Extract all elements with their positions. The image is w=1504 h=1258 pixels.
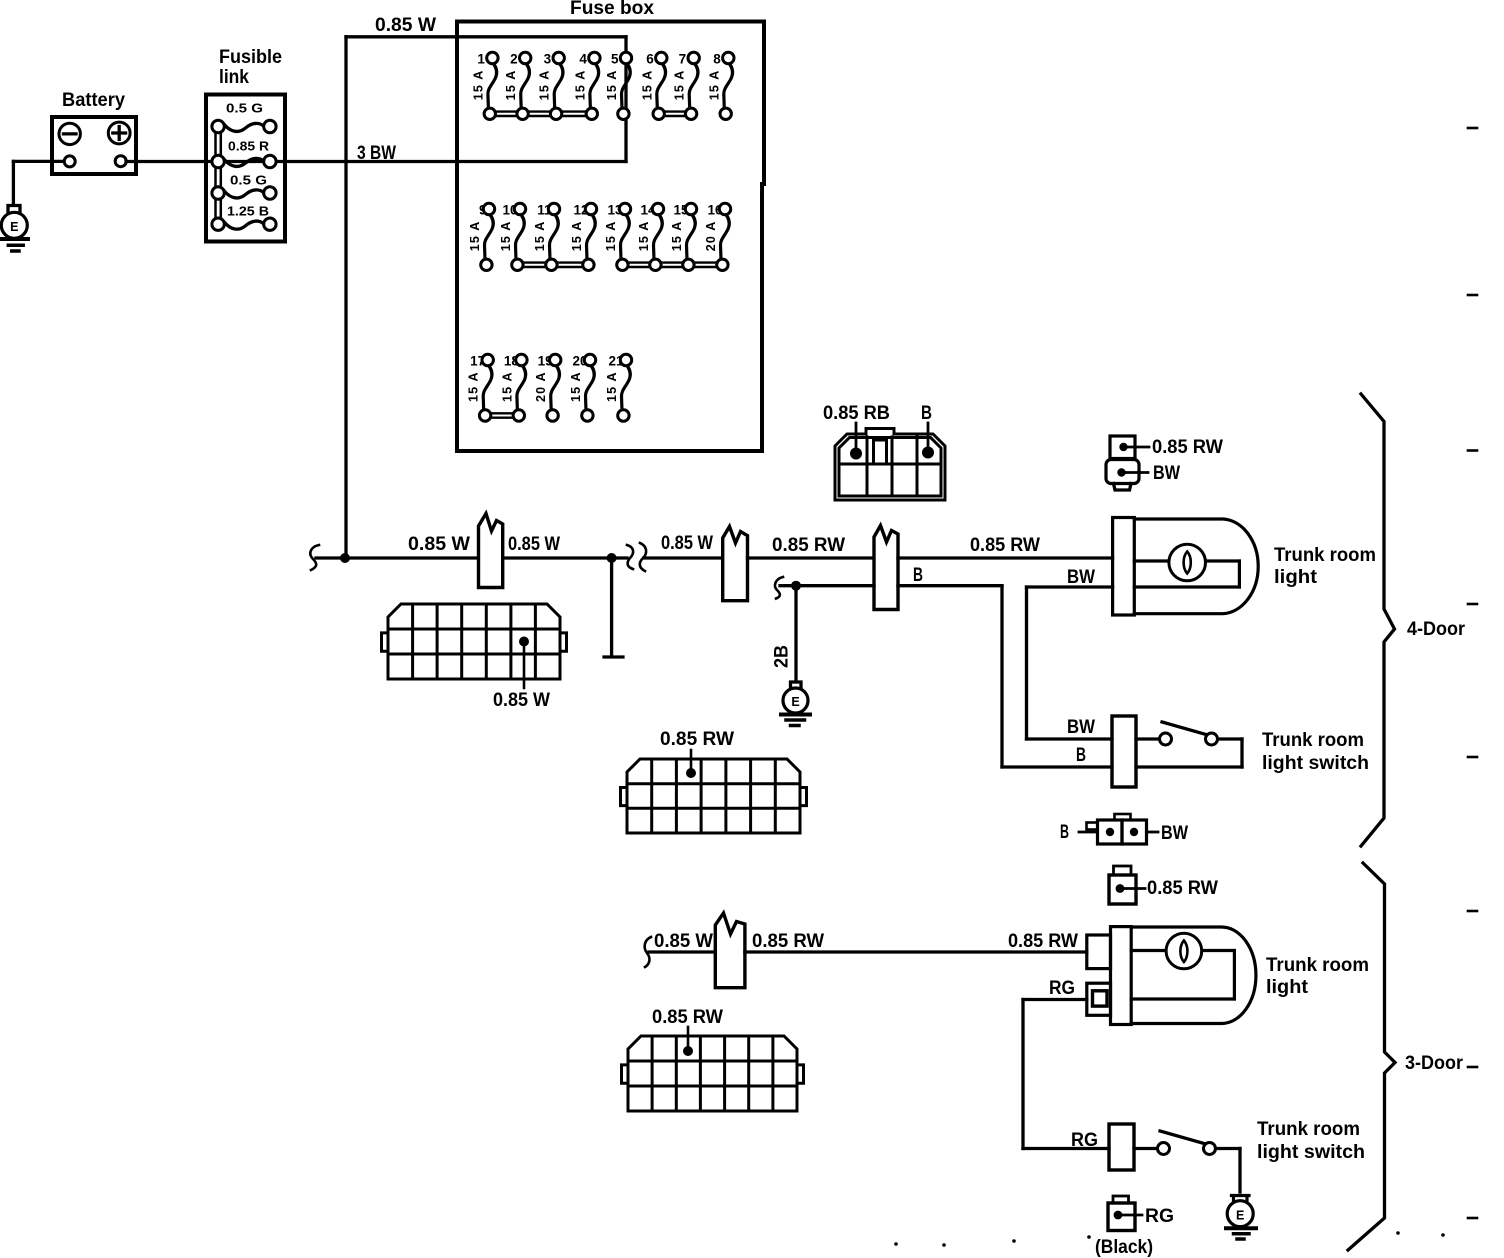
svg-text:0.85 RW: 0.85 RW [652,1007,723,1028]
svg-text:BW: BW [1067,567,1095,588]
pin mark 0.85 W (GC1) [519,637,529,647]
connector 0.85 RW (3-door, top) [1109,866,1145,904]
svg-text:20 A: 20 A [534,371,548,402]
fuse 19 20 A [534,354,561,422]
fuse box outline [457,22,764,452]
fuse 9 15 A [468,203,495,271]
svg-text:0.5 G: 0.5 G [226,102,263,116]
svg-text:0.85 RW: 0.85 RW [970,535,1040,556]
fusible link [206,47,285,242]
wire main run segment 2 [503,556,627,559]
svg-text:RG: RG [1145,1206,1174,1227]
page tick marks [1468,128,1477,1218]
brace 4-Door [1361,394,1395,846]
fuse 3 15 A [538,52,565,120]
bulb (3-door trunk light) [1166,933,1202,969]
wire fuse box loop top [346,35,626,38]
fuse 17 15 A [467,354,494,422]
svg-text:1: 1 [477,52,485,67]
trunk room light switch (4-door) [1112,716,1242,787]
connector C3 (double, 0.85RW / B) [874,526,898,610]
wire battery negative to ground [13,160,64,163]
junction node B / ground branch [791,581,801,591]
fusible link element 0.5 G [212,174,276,200]
fuse 13 15 A [604,203,631,271]
wire main run segment 3 [644,556,723,559]
svg-text:(Black): (Black) [1095,1237,1153,1258]
svg-text:Fusible: Fusible [219,47,282,68]
fuse 1 15 A [471,52,498,120]
svg-text:Trunk room: Trunk room [1257,1119,1360,1140]
svg-text:light: light [1274,567,1318,588]
fuse 4 15 A [573,52,600,120]
fuse 6 15 A [640,52,667,120]
svg-text:4-Door: 4-Door [1407,619,1466,640]
wire main run segment 1 [316,556,478,559]
ground E (battery) [1,206,28,252]
wire BW trunk light to switch [1027,585,1113,588]
fuse 7 15 A [673,52,700,120]
trunk room light switch (3-door) [1109,1124,1240,1192]
svg-text:RG: RG [1071,1130,1098,1151]
bulb (4-door trunk light) [1169,544,1206,581]
wire 2B to ground [794,586,797,682]
wire break symbol (3-door run) [645,937,651,967]
svg-text:light: light [1266,977,1309,998]
brace 3-Door [1348,863,1395,1250]
svg-text:15 A: 15 A [640,70,654,101]
svg-text:15 A: 15 A [499,221,513,252]
svg-text:BW: BW [1153,463,1180,484]
svg-text:6: 6 [646,52,654,67]
svg-text:0.85 RW: 0.85 RW [752,931,824,952]
fuse 5 15 A [605,52,632,120]
svg-text:0.85 RW: 0.85 RW [1152,437,1223,458]
svg-text:2B: 2B [772,645,793,668]
svg-text:BW: BW [1067,717,1095,738]
fuse 20 15 A [569,354,596,422]
svg-text:4: 4 [579,52,587,67]
multi-pin connector block floor wire No.1 [621,759,807,833]
wire B to trunk switch [1002,765,1112,768]
svg-text:15 A: 15 A [673,70,687,101]
ground E (3-door switch) [1226,1196,1256,1240]
svg-text:BW: BW [1161,823,1188,844]
svg-text:15 A: 15 A [468,221,482,252]
wire vertical 0.85 W down to main run [344,37,347,558]
svg-text:0.85 RW: 0.85 RW [1008,931,1078,952]
svg-text:3 BW: 3 BW [357,143,396,164]
svg-text:15 A: 15 A [533,221,547,252]
svg-text:0.85 RW: 0.85 RW [660,729,734,750]
trunk room light (3-door) [1087,927,1256,1025]
svg-text:1.25 B: 1.25 B [227,205,269,219]
svg-text:Trunk room: Trunk room [1274,545,1376,566]
junction node main run / 0.85W vertical [340,553,350,563]
connector C2 (0.85W / 0.85RW) [723,527,748,601]
fuse bus bar [517,261,588,263]
svg-text:15 A: 15 A [573,70,587,101]
svg-text:15 A: 15 A [538,70,552,101]
pin 0.85 RB [850,448,862,460]
fuse 15 15 A [670,203,697,271]
svg-text:15 A: 15 A [707,70,721,101]
svg-text:15 A: 15 A [569,371,583,402]
svg-text:light switch: light switch [1257,1142,1365,1163]
wire fuse box loop right edge [624,37,627,162]
svg-text:15 A: 15 A [570,221,584,252]
page dots [894,1231,1445,1247]
wire break symbol (left of main run) [310,545,319,570]
fuse bus bar [485,412,519,414]
connector pair B / BW (4-door switch) [1079,814,1158,844]
svg-text:E: E [791,695,799,709]
trunk room light (4-door) [1113,518,1259,616]
svg-text:15 A: 15 A [604,221,618,252]
junction connector 0.85 RB / B [835,429,945,501]
svg-text:5: 5 [611,52,619,67]
connector C4 (0.85W / 0.85RW, 3-door) [715,913,745,988]
multi-pin connector block floor wire No.2 [622,1036,804,1111]
wire stub to open end [610,558,613,655]
svg-text:3-Door: 3-Door [1405,1053,1464,1074]
svg-text:15 A: 15 A [637,221,651,252]
pin mark 0.85 RW (GC2) [686,768,696,778]
svg-text:15 A: 15 A [500,371,514,402]
connector BW (4-door light) [1106,460,1148,491]
svg-text:E: E [10,220,18,234]
svg-text:0.85 W: 0.85 W [508,534,560,555]
svg-text:15 A: 15 A [605,70,619,101]
svg-text:0.85 W: 0.85 W [493,690,550,711]
svg-text:Trunk room: Trunk room [1266,955,1369,976]
fuse 2 15 A [504,52,531,120]
fuse bus bar [659,110,691,112]
fusible link element 1.25 B [212,205,276,231]
svg-text:7: 7 [679,52,687,67]
svg-text:0.85 W: 0.85 W [408,534,470,555]
inline connector break symbols [627,545,633,569]
fuse 10 15 A [499,203,526,271]
battery [52,90,136,174]
wire main run segment 4 [748,556,875,559]
fuse 21 15 A [605,354,632,422]
connector 0.85 RW (4-door light) [1110,436,1149,459]
svg-text:0.85 RW: 0.85 RW [772,535,845,556]
svg-text:B: B [921,403,932,424]
wire B from C3 to corner [898,584,1002,587]
svg-text:link: link [219,67,249,88]
wire RG light to switch [1023,998,1087,1001]
multi-pin connector block instrument panel wire [382,604,567,679]
svg-text:15 A: 15 A [471,70,485,101]
fuse bus bar [490,110,592,112]
wire main run segment 5 to trunk light [898,556,1113,559]
svg-text:0.85 W: 0.85 W [661,533,713,554]
connector C1 (0.85W / 0.85W) [479,514,503,588]
wire B down [1000,586,1003,767]
svg-text:2: 2 [510,52,518,67]
open end terminal bar [604,655,623,658]
svg-text:15 A: 15 A [467,371,481,402]
svg-text:B: B [1076,745,1086,766]
fusible link element 0.5 G [212,102,276,133]
svg-text:0.85 R: 0.85 R [228,140,269,154]
svg-text:15 A: 15 A [670,221,684,252]
junction node dead-end branch [607,553,617,563]
svg-text:3: 3 [544,52,552,67]
pin B [922,447,934,459]
fuse 16 20 A [704,203,731,271]
wire 3-door run segment 2 [745,950,1087,953]
fuse 11 15 A [533,203,560,271]
svg-text:Trunk room: Trunk room [1262,730,1364,751]
fuse 18 15 A [500,354,527,422]
svg-text:E: E [1236,1209,1244,1223]
fusible link element 0.85 R [212,140,276,168]
wire battery to fusible link (through) 3 BW [126,160,626,163]
svg-text:RG: RG [1049,978,1075,999]
fuse 12 15 A [570,203,597,271]
svg-text:20 A: 20 A [704,221,718,252]
svg-text:15 A: 15 A [504,70,518,101]
pin mark 0.85 RW (GC3) [683,1046,693,1056]
svg-text:15 A: 15 A [605,371,619,402]
wire 3-door run segment 1 [649,950,716,953]
svg-text:0.5 G: 0.5 G [230,174,267,188]
svg-text:Fuse box: Fuse box [570,0,654,19]
ground E (2B) [781,682,810,726]
svg-text:8: 8 [713,52,721,67]
wire break symbol (B branch) [775,577,783,599]
wire B to connector C3 [780,584,874,587]
fuse bus bar [622,261,722,263]
svg-text:B: B [1060,822,1069,843]
svg-text:Battery: Battery [62,90,125,111]
svg-text:0.85 RB: 0.85 RB [823,403,890,424]
svg-text:light switch: light switch [1262,753,1369,774]
svg-text:0.85 W: 0.85 W [375,15,436,36]
fuse 8 15 A [707,52,734,120]
connector RG black (3-door) [1108,1196,1142,1231]
svg-text:0.85 W: 0.85 W [654,931,713,952]
svg-text:B: B [913,565,923,586]
fuse 14 15 A [637,203,664,271]
svg-text:0.85 RW: 0.85 RW [1147,878,1218,899]
